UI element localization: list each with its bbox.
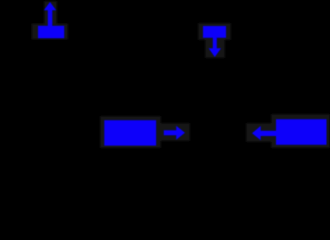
arrow up A1 <box>44 2 56 27</box>
arrow left A4 <box>252 126 277 140</box>
box B3 <box>104 120 156 145</box>
box B4 <box>276 119 327 145</box>
arrow right A3 <box>164 126 185 140</box>
box B2 <box>203 26 226 38</box>
artifact halos <box>32 1 330 148</box>
box B1 <box>38 26 64 38</box>
arrow down A2 <box>209 37 222 57</box>
